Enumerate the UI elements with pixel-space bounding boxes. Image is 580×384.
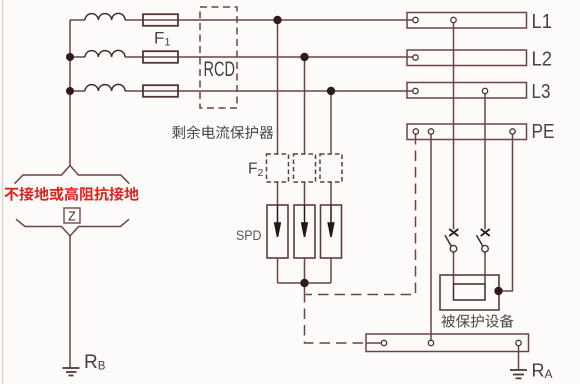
svg-text:PE: PE xyxy=(532,120,555,143)
svg-text:SPD: SPD xyxy=(236,228,262,243)
svg-text:RCD: RCD xyxy=(204,57,236,81)
svg-text:L1: L1 xyxy=(532,10,553,33)
svg-text:L3: L3 xyxy=(532,80,551,103)
svg-text:Z: Z xyxy=(68,210,76,224)
svg-text:L2: L2 xyxy=(532,48,553,71)
